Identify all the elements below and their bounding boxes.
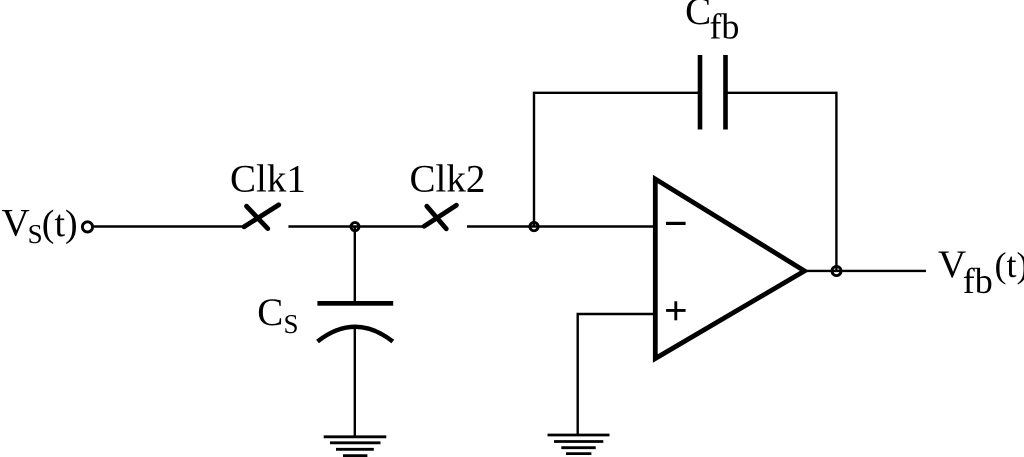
wire feedback top right and riser right xyxy=(727,93,837,271)
label Cfb xyxy=(685,0,739,46)
node B summing junction xyxy=(530,222,538,230)
wire op-amp output xyxy=(805,270,837,272)
svg-text:fb: fb xyxy=(709,6,739,46)
op-amp U1 xyxy=(655,179,804,359)
wire Clk2 to node B xyxy=(467,225,534,227)
svg-text:Clk1: Clk1 xyxy=(230,158,306,201)
label Cs xyxy=(257,291,298,339)
switch Clk2 xyxy=(424,205,456,229)
svg-text:fb: fb xyxy=(963,261,993,301)
svg-text:S: S xyxy=(284,309,299,339)
wire non-inverting input to ground xyxy=(578,314,656,435)
node A junction xyxy=(351,223,359,231)
svg-text:V: V xyxy=(2,201,30,244)
wire node B to op-amp inverting input xyxy=(534,225,656,227)
wire Cs to ground xyxy=(354,329,356,437)
wire feedback riser left and top rail xyxy=(534,93,699,227)
switch Clk1 xyxy=(244,205,279,229)
wire Clk1 to node A xyxy=(288,225,355,227)
capacitor Cs xyxy=(317,301,393,342)
input terminal node xyxy=(82,222,92,232)
ground under Cs xyxy=(324,437,387,456)
svg-text:(t): (t) xyxy=(995,245,1024,285)
op-amp non-inverting input marker xyxy=(666,301,686,320)
wire node A to Clk2 xyxy=(355,225,423,227)
svg-text:(t): (t) xyxy=(42,203,78,245)
op-amp inverting input marker xyxy=(666,222,686,225)
wire node A down to Cs xyxy=(354,227,356,302)
svg-text:C: C xyxy=(257,291,283,334)
output node xyxy=(832,266,841,275)
wire output to label xyxy=(836,270,926,272)
label Vfb(t) xyxy=(938,243,1024,301)
svg-text:C: C xyxy=(685,0,711,33)
wire input to Clk1 xyxy=(94,225,244,227)
svg-text:Clk2: Clk2 xyxy=(410,157,486,200)
ground at non-inverting input xyxy=(548,435,610,454)
capacitor Cfb xyxy=(698,55,728,130)
svg-text:S: S xyxy=(28,219,43,249)
label Vs(t) xyxy=(2,201,78,249)
